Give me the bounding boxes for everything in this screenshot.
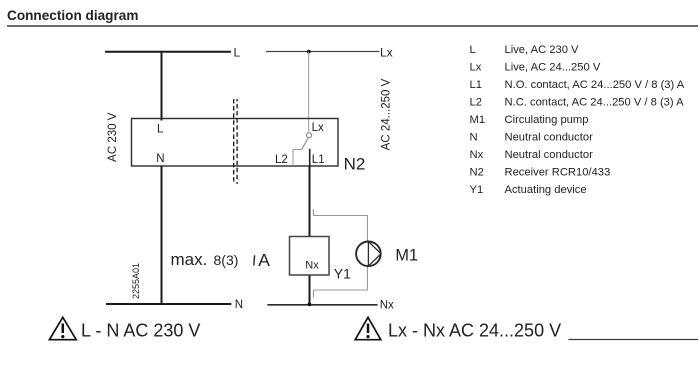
svg-text:M1: M1 (470, 114, 486, 126)
svg-text:Nx: Nx (380, 299, 394, 311)
svg-text:Actuating device: Actuating device (505, 184, 587, 196)
svg-text:L1: L1 (312, 154, 325, 166)
switch blade (302, 138, 309, 150)
svg-text:Y1: Y1 (334, 265, 351, 281)
svg-text:N2: N2 (470, 166, 484, 178)
wire M1 branch top hook (314, 209, 368, 241)
svg-text:Y1: Y1 (470, 184, 484, 196)
svg-text:Lx - Nx AC 24...250 V: Lx - Nx AC 24...250 V (388, 321, 561, 341)
junction dot Nx (308, 303, 312, 307)
svg-text:Nx: Nx (305, 259, 319, 271)
svg-text:Live, AC 230 V: Live, AC 230 V (505, 44, 580, 56)
contact L2 hook (293, 150, 302, 167)
svg-text:Connection diagram: Connection diagram (7, 8, 138, 23)
svg-text:N: N (235, 299, 243, 311)
svg-text:L1: L1 (470, 79, 482, 91)
svg-text:Lx: Lx (380, 46, 393, 60)
wire Nx bus (267, 304, 377, 306)
svg-text:Live, AC 24...250 V: Live, AC 24...250 V (505, 61, 601, 73)
svg-text:AC 24...250 V: AC 24...250 V (380, 78, 392, 150)
svg-text:Neutral conductor: Neutral conductor (505, 131, 594, 143)
svg-text:2255A01: 2255A01 (131, 263, 141, 299)
svg-text:N: N (156, 153, 164, 165)
title rule (7, 25, 698, 26)
pump M1 circle (356, 242, 381, 267)
svg-text:L: L (234, 46, 241, 60)
warning triangle left (49, 317, 76, 339)
wire L bus (105, 51, 231, 53)
svg-text:N2: N2 (344, 154, 366, 173)
svg-text:A: A (258, 250, 270, 270)
svg-text:Neutral conductor: Neutral conductor (505, 149, 594, 161)
isolation dashed line b (236, 99, 238, 184)
warning triangle right (355, 317, 381, 339)
svg-text:M1: M1 (395, 247, 418, 265)
wire L drop (161, 51, 163, 121)
wire N bus (106, 303, 231, 305)
switch pivot contact (307, 133, 312, 138)
svg-text:Nx: Nx (470, 149, 484, 161)
signature line (569, 339, 699, 341)
isolation dashed line a (233, 99, 235, 184)
svg-text:Lx: Lx (312, 122, 324, 134)
svg-text:L - N AC 230 V: L - N AC 230 V (81, 321, 200, 341)
pump M1 triangle (368, 242, 381, 267)
svg-text:Receiver RCR10/433: Receiver RCR10/433 (505, 166, 611, 178)
svg-text:N: N (470, 131, 478, 143)
svg-text:Lx: Lx (470, 61, 482, 73)
svg-text:L2: L2 (275, 154, 288, 166)
wire L1 drop to Y1 (309, 166, 311, 237)
svg-text:N.O. contact, AC 24...250 V /: N.O. contact, AC 24...250 V / 8 (3) A (505, 79, 685, 91)
actuating device Y1 box (290, 237, 330, 276)
wire Lx bus (266, 51, 380, 53)
svg-text:L: L (470, 44, 476, 56)
svg-text:8(3): 8(3) (214, 252, 239, 268)
wire L1 inside box (309, 149, 311, 166)
wire M1 branch bottom hook (314, 266, 368, 297)
wire N drop (161, 166, 163, 305)
svg-text:max.: max. (171, 250, 208, 269)
svg-text:L2: L2 (470, 96, 482, 108)
wire Lx drop (308, 52, 310, 133)
junction dot Lx (307, 50, 311, 54)
svg-text:Circulating pump: Circulating pump (505, 114, 589, 126)
svg-text:L: L (157, 124, 164, 136)
wire Y1 to Nx bus (309, 275, 311, 305)
svg-text:N.C. contact, AC 24...250 V /: N.C. contact, AC 24...250 V / 8 (3) A (505, 96, 685, 108)
receiver N2 box (132, 119, 339, 167)
svg-text:AC 230 V: AC 230 V (107, 112, 119, 162)
